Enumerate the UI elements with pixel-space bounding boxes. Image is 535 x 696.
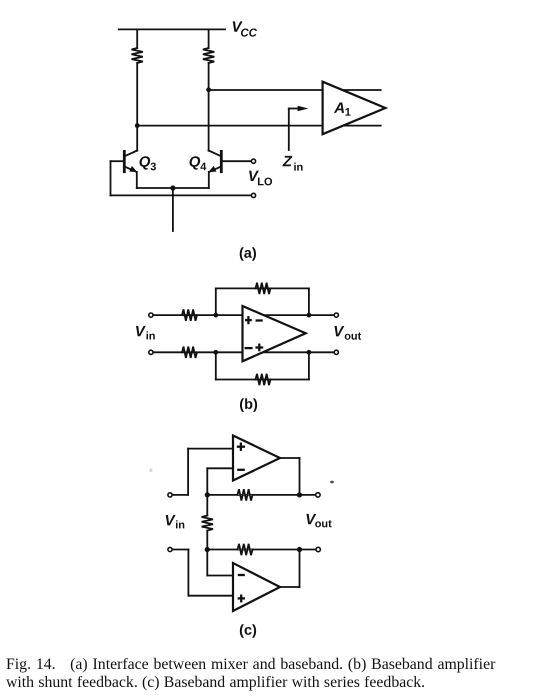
svg-text:Q: Q — [189, 154, 201, 171]
svg-text:(c): (c) — [239, 623, 257, 639]
svg-text:4: 4 — [200, 161, 207, 173]
svg-text:Q: Q — [139, 154, 151, 171]
svg-text:out: out — [315, 518, 332, 530]
svg-text:in: in — [175, 519, 185, 531]
svg-text:1: 1 — [345, 107, 351, 119]
svg-text:Z: Z — [282, 153, 293, 170]
svg-text:in: in — [146, 330, 156, 342]
svg-text:3: 3 — [150, 161, 156, 173]
svg-text:A: A — [333, 100, 345, 117]
svg-text:(b): (b) — [239, 397, 258, 413]
svg-text:CC: CC — [240, 27, 257, 39]
svg-text:in: in — [293, 162, 303, 174]
svg-text:(a): (a) — [239, 246, 257, 262]
svg-text:out: out — [344, 331, 361, 343]
svg-text:LO: LO — [257, 176, 273, 188]
